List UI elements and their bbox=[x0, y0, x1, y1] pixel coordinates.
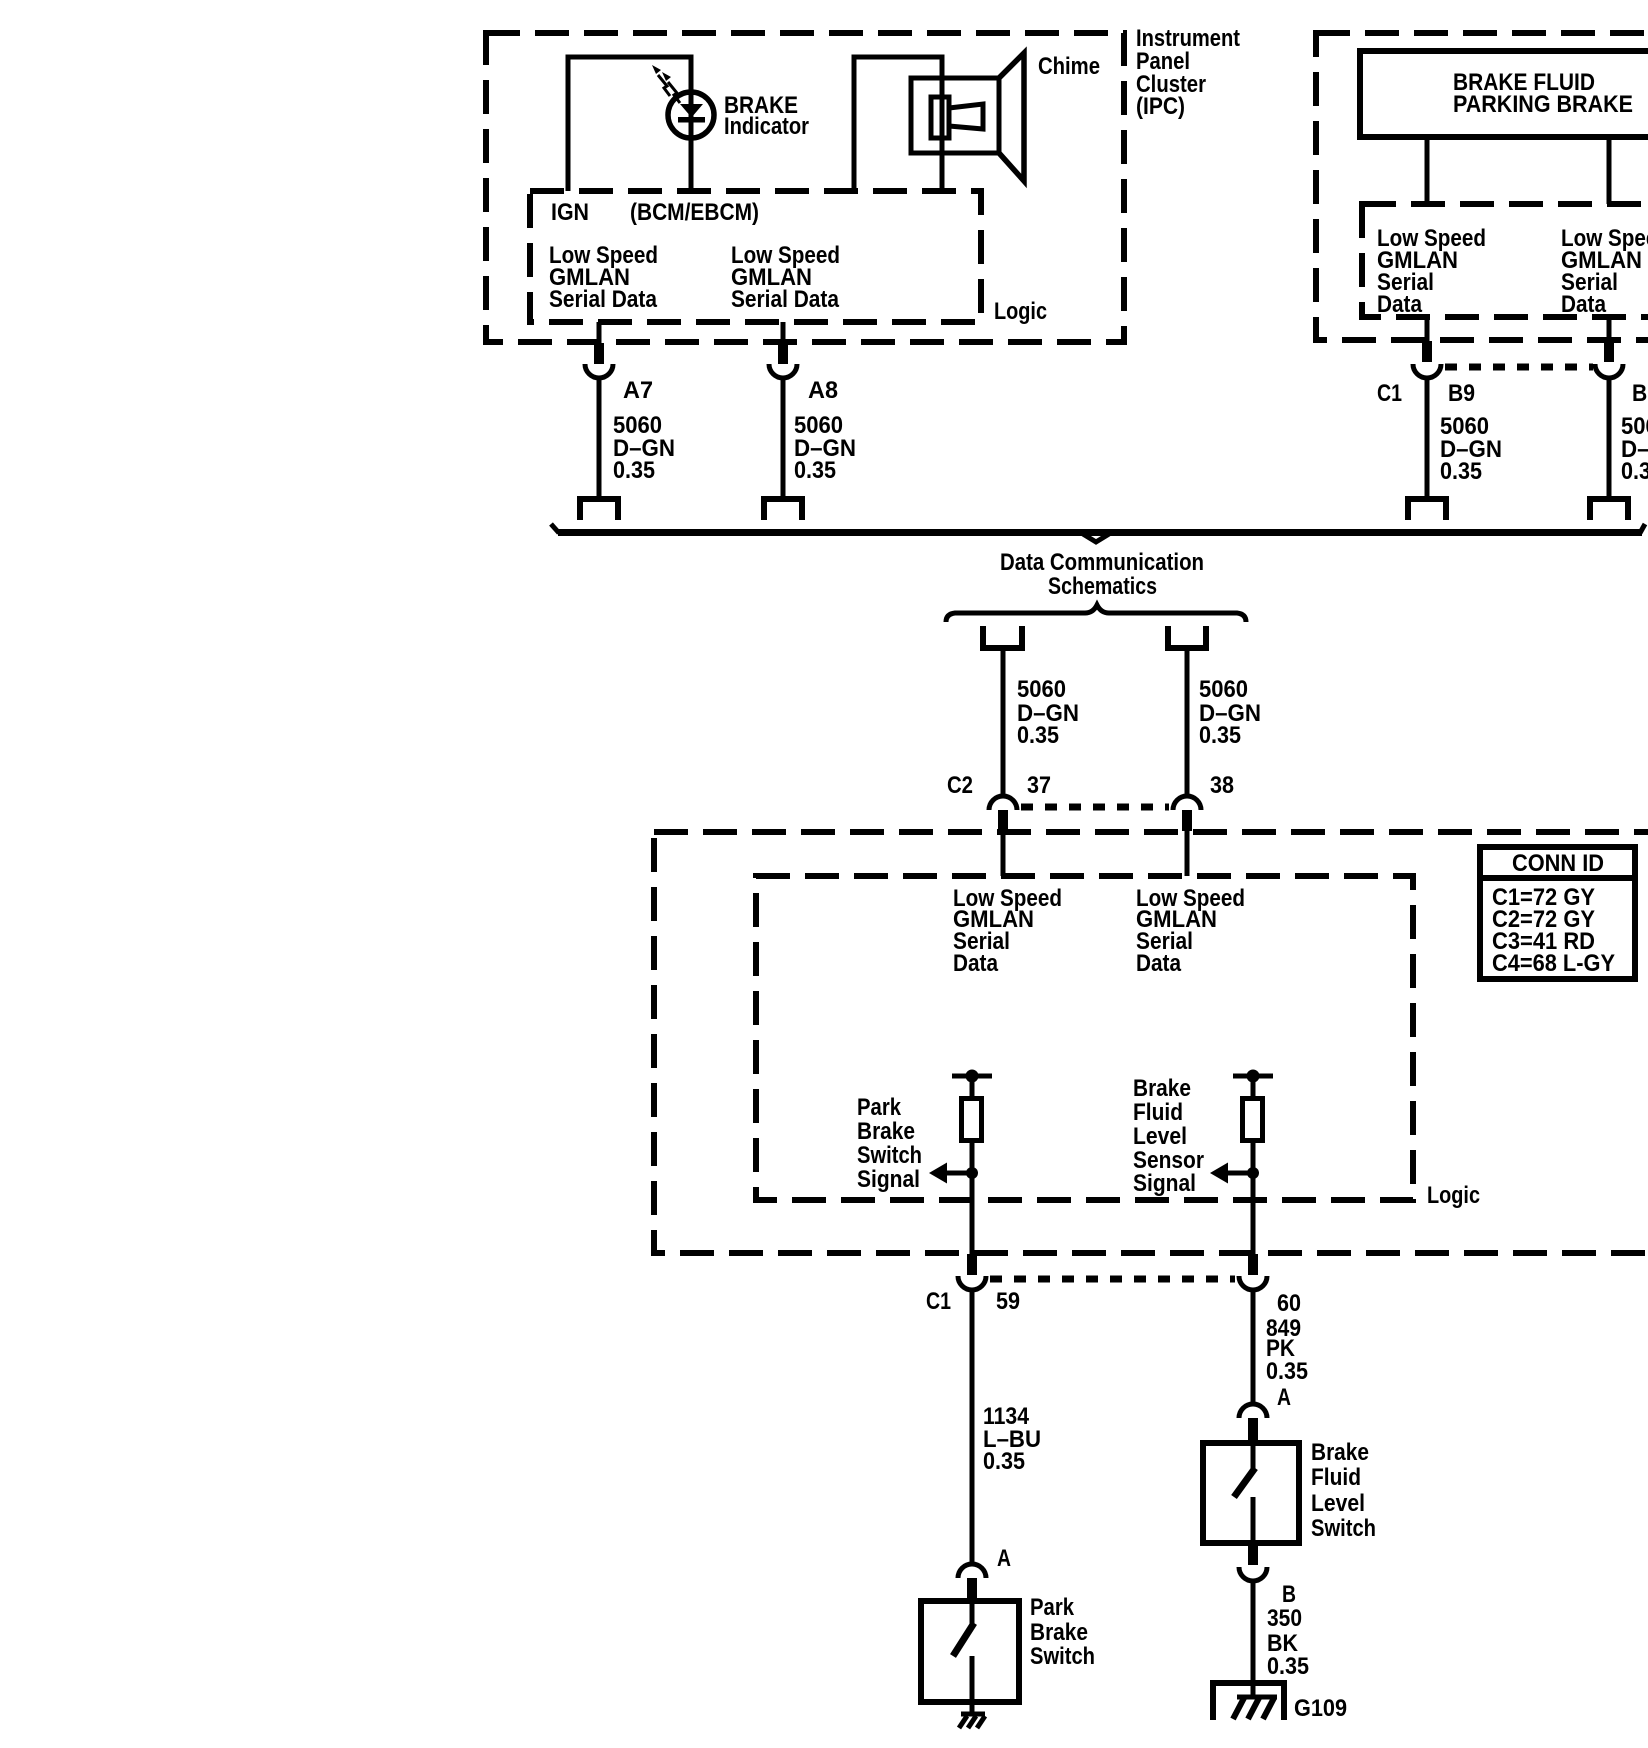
terminal bracket A7 bbox=[580, 499, 618, 520]
wire park signal upper bbox=[970, 1076, 975, 1099]
svg-text:Data: Data bbox=[1561, 291, 1607, 318]
svg-text:IGN: IGN bbox=[551, 199, 589, 226]
connector join C1 (dotted) bbox=[990, 1276, 1235, 1283]
svg-text:0.35: 0.35 bbox=[1621, 458, 1648, 485]
terminal bracket A8 bbox=[764, 499, 802, 520]
node park brake signal top bar bbox=[952, 1074, 992, 1079]
connector pin 59 bbox=[967, 1254, 977, 1275]
connector pin 38 bbox=[1182, 810, 1192, 831]
svg-text:A8: A8 bbox=[808, 377, 838, 404]
wire pin 37 into BCM bbox=[1001, 831, 1006, 876]
switch brake fluid level (contacts) bbox=[1234, 1443, 1255, 1543]
svg-text:Data Communication: Data Communication bbox=[1000, 549, 1204, 576]
node junction dot (park arrow) bbox=[966, 1167, 978, 1179]
connector pin 37 bbox=[998, 810, 1008, 831]
svg-text:B9: B9 bbox=[1448, 380, 1475, 407]
wire A7 to bus bbox=[597, 378, 602, 497]
connector arch C2-38 bbox=[1173, 796, 1201, 810]
label BRAKE Indicator bbox=[724, 92, 809, 140]
connector cup C1-B9 bbox=[1413, 364, 1441, 378]
svg-text:Serial Data: Serial Data bbox=[731, 286, 840, 313]
node brake fluid signal top bar bbox=[1233, 1074, 1273, 1079]
svg-text:60: 60 bbox=[1277, 1290, 1301, 1317]
switch box Brake Fluid Level Switch bbox=[1203, 1443, 1299, 1543]
svg-text:Switch: Switch bbox=[857, 1142, 922, 1169]
svg-text:0.35: 0.35 bbox=[794, 457, 836, 484]
wire label 849 PK 0.35 bbox=[1266, 1315, 1308, 1385]
resistor (park brake signal pull-up) bbox=[962, 1099, 982, 1141]
svg-text:B: B bbox=[1282, 1581, 1296, 1608]
label Low Speed GMLAN Serial Data (BCM left) bbox=[953, 885, 1062, 977]
terminal bracket B9 bbox=[1408, 499, 1446, 520]
svg-text:0.35: 0.35 bbox=[1199, 722, 1241, 749]
chime speaker symbol bbox=[911, 53, 1024, 181]
svg-text:Logic: Logic bbox=[994, 298, 1047, 325]
terminal bracket B10 bbox=[1590, 499, 1628, 520]
svg-text:Level: Level bbox=[1311, 1490, 1365, 1517]
label Brake Fluid Level Sensor Signal bbox=[1133, 1075, 1204, 1197]
component box BRAKE FLUID PARKING BRAKE bbox=[1360, 51, 1648, 137]
wire B9 to bus bbox=[1425, 378, 1430, 497]
svg-text:A7: A7 bbox=[623, 377, 653, 404]
label Data Communication Schematics bbox=[1000, 549, 1204, 600]
svg-text:Chime: Chime bbox=[1038, 53, 1100, 80]
terminal bracket (drop to C2-38) bbox=[1165, 626, 1209, 648]
svg-text:Data: Data bbox=[1136, 950, 1182, 977]
wire label 350 BK 0.35 bbox=[1267, 1605, 1309, 1680]
svg-text:CONN ID: CONN ID bbox=[1512, 850, 1604, 877]
svg-text:Switch: Switch bbox=[1030, 1643, 1095, 1670]
svg-text:Fluid: Fluid bbox=[1133, 1099, 1183, 1126]
wire 1134 L-BU (park brake switch circuit) bbox=[970, 1290, 975, 1562]
svg-text:Level: Level bbox=[1133, 1123, 1187, 1150]
switch box Park Brake Switch bbox=[921, 1601, 1019, 1702]
connector join C2 (dotted) bbox=[1021, 804, 1169, 811]
svg-text:Brake: Brake bbox=[857, 1118, 915, 1145]
arrow park brake switch signal bbox=[929, 1163, 972, 1184]
svg-text:5060: 5060 bbox=[1199, 676, 1248, 703]
wire pin 38 into BCM bbox=[1185, 831, 1190, 876]
connector arch A (park brake switch) bbox=[958, 1564, 986, 1578]
wire 350 BK to ground bbox=[1251, 1581, 1256, 1697]
label Park Brake Switch Signal bbox=[857, 1094, 922, 1193]
label BRAKE FLUID PARKING BRAKE bbox=[1453, 69, 1633, 118]
label Park Brake Switch bbox=[1030, 1594, 1095, 1670]
svg-text:37: 37 bbox=[1027, 772, 1051, 799]
wire label 5060 D-GN 0.35 (38) bbox=[1199, 676, 1261, 749]
arrow brake fluid level sensor signal bbox=[1210, 1163, 1253, 1184]
svg-text:5060: 5060 bbox=[1017, 676, 1066, 703]
svg-text:Signal: Signal bbox=[1133, 1170, 1196, 1197]
connector pin 60 bbox=[1248, 1254, 1258, 1275]
wire label 5060 D-GN 0.35 (A8) bbox=[794, 412, 856, 484]
ground G109 bbox=[1210, 1683, 1287, 1720]
svg-text:Data: Data bbox=[1377, 291, 1423, 318]
svg-text:Brake: Brake bbox=[1133, 1075, 1191, 1102]
connector pin B9 bbox=[1422, 341, 1432, 362]
connector pin B10 bbox=[1604, 341, 1614, 362]
svg-text:0.35: 0.35 bbox=[1017, 722, 1059, 749]
label Low Speed GMLAN Serial Data (right module right) bbox=[1561, 225, 1648, 318]
module brake fluid logic dashed box bbox=[1362, 204, 1648, 317]
label Low Speed GMLAN Serial Data (right module left) bbox=[1377, 225, 1486, 318]
connector pin A (BFL) bbox=[1248, 1418, 1258, 1440]
node junction dot (park top) bbox=[966, 1070, 979, 1083]
indicator lamp BRAKE (LED symbol) bbox=[668, 92, 714, 138]
wire chime loop bbox=[854, 57, 942, 191]
label Instrument Panel Cluster (IPC) bbox=[1136, 25, 1240, 120]
svg-text:350: 350 bbox=[1267, 1605, 1302, 1632]
wire brake fluid module right bbox=[1607, 137, 1612, 204]
wire BRAKE indicator loop bbox=[568, 57, 691, 191]
svg-text:Brake: Brake bbox=[1030, 1619, 1088, 1646]
brace (harness branch) bbox=[946, 605, 1246, 622]
svg-text:C1: C1 bbox=[926, 1288, 951, 1315]
switch park brake (contacts) bbox=[953, 1601, 974, 1714]
LED light arrows bbox=[658, 75, 680, 103]
svg-text:Data: Data bbox=[953, 950, 999, 977]
svg-text:0.35: 0.35 bbox=[1267, 1653, 1309, 1680]
label Low Speed GMLAN Serial Data (IPC right) bbox=[731, 242, 840, 313]
wire A8 to bus bbox=[781, 378, 786, 497]
svg-text:Fluid: Fluid bbox=[1311, 1464, 1361, 1491]
svg-text:59: 59 bbox=[996, 1288, 1020, 1315]
label Low Speed GMLAN Serial Data (IPC left) bbox=[549, 242, 658, 313]
wire label 5060 D-GN 0.35 (A7) bbox=[613, 412, 675, 484]
svg-text:0.35: 0.35 bbox=[983, 1448, 1025, 1475]
node junction dot (BFL top) bbox=[1247, 1070, 1260, 1083]
wire module pin B10 bbox=[1607, 317, 1612, 342]
wire label 5060 D-GN 0.35 (B10, clipped) bbox=[1621, 413, 1648, 485]
wire drop to C2 pin 38 bbox=[1185, 648, 1190, 794]
connector cup C1-B10 bbox=[1595, 364, 1623, 378]
svg-text:Switch: Switch bbox=[1311, 1515, 1376, 1542]
wire IPC pin A8 bbox=[781, 322, 786, 344]
svg-text:Indicator: Indicator bbox=[724, 113, 809, 140]
wire data communication bus bbox=[551, 524, 1645, 542]
svg-text:Brake: Brake bbox=[1311, 1439, 1369, 1466]
resistor (brake fluid level sensor pull-up) bbox=[1243, 1099, 1263, 1141]
svg-text:Logic: Logic bbox=[1427, 1182, 1480, 1209]
connector pin A8 bbox=[778, 343, 788, 364]
wire label 5060 D-GN 0.35 (B9) bbox=[1440, 413, 1502, 485]
svg-text:A: A bbox=[1277, 1384, 1291, 1411]
svg-text:Signal: Signal bbox=[857, 1166, 920, 1193]
wire BFL signal lower bbox=[1251, 1140, 1256, 1255]
svg-text:Park: Park bbox=[857, 1094, 902, 1121]
module BCM logic dashed box bbox=[756, 876, 1413, 1200]
module BCM/EBCM outer dashed box bbox=[654, 832, 1648, 1253]
wire park signal lower bbox=[970, 1140, 975, 1255]
ground (park brake switch) bbox=[959, 1714, 985, 1728]
svg-text:0.35: 0.35 bbox=[1440, 458, 1482, 485]
node junction dot (BFL arrow) bbox=[1247, 1167, 1259, 1179]
wire label 1134 L-BU 0.35 bbox=[983, 1403, 1041, 1475]
svg-text:0.35: 0.35 bbox=[1266, 1358, 1308, 1385]
module IPC outer dashed box bbox=[486, 33, 1124, 342]
connector cup A7 bbox=[585, 364, 613, 378]
connector arch C2-37 bbox=[989, 796, 1017, 810]
connector pin B (BFL) bbox=[1248, 1543, 1258, 1565]
connector cup C1-59 bbox=[958, 1276, 986, 1290]
svg-text:Park: Park bbox=[1030, 1594, 1075, 1621]
label Low Speed GMLAN Serial Data (BCM right) bbox=[1136, 885, 1245, 977]
svg-text:Serial Data: Serial Data bbox=[549, 286, 658, 313]
connector cup C1-60 bbox=[1239, 1276, 1267, 1290]
svg-text:38: 38 bbox=[1210, 772, 1234, 799]
connector cup A8 bbox=[769, 364, 797, 378]
svg-text:0.35: 0.35 bbox=[613, 457, 655, 484]
wire B10 to bus bbox=[1607, 378, 1612, 497]
svg-text:C2: C2 bbox=[947, 772, 973, 799]
wire module pin B9 bbox=[1425, 317, 1430, 342]
connector join C1-B9 (dotted) bbox=[1445, 364, 1593, 371]
wire label 5060 D-GN 0.35 (37) bbox=[1017, 676, 1079, 749]
wire IPC pin A7 bbox=[597, 322, 602, 344]
svg-text:B9: B9 bbox=[1632, 380, 1648, 407]
CONN ID table bbox=[1477, 847, 1638, 979]
wire 849 PK (brake fluid level circuit) bbox=[1251, 1290, 1256, 1404]
svg-text:G109: G109 bbox=[1294, 1695, 1347, 1722]
svg-text:PARKING BRAKE: PARKING BRAKE bbox=[1453, 91, 1633, 118]
terminal bracket (drop to C2-37) bbox=[980, 626, 1025, 648]
svg-text:C1: C1 bbox=[1377, 380, 1402, 407]
svg-text:(IPC): (IPC) bbox=[1136, 93, 1185, 120]
svg-text:C4=68 L-GY: C4=68 L-GY bbox=[1492, 950, 1615, 977]
connector arch A (brake fluid level switch) bbox=[1239, 1404, 1267, 1418]
wire brake fluid module left bbox=[1425, 137, 1430, 204]
wire drop to C2 pin 37 bbox=[1001, 648, 1006, 794]
svg-text:(BCM/EBCM): (BCM/EBCM) bbox=[630, 199, 759, 226]
svg-text:A: A bbox=[997, 1545, 1011, 1572]
module IPC logic dashed box bbox=[530, 191, 981, 322]
svg-text:Schematics: Schematics bbox=[1048, 573, 1157, 600]
connector pin A7 bbox=[594, 343, 604, 364]
label Brake Fluid Level Switch bbox=[1311, 1439, 1376, 1542]
wire BFL signal upper bbox=[1251, 1076, 1256, 1099]
module brake fluid/parking brake outer dashed box bbox=[1316, 33, 1648, 340]
connector pin A (park) bbox=[967, 1578, 977, 1599]
connector cup B (BFL) bbox=[1239, 1567, 1267, 1581]
